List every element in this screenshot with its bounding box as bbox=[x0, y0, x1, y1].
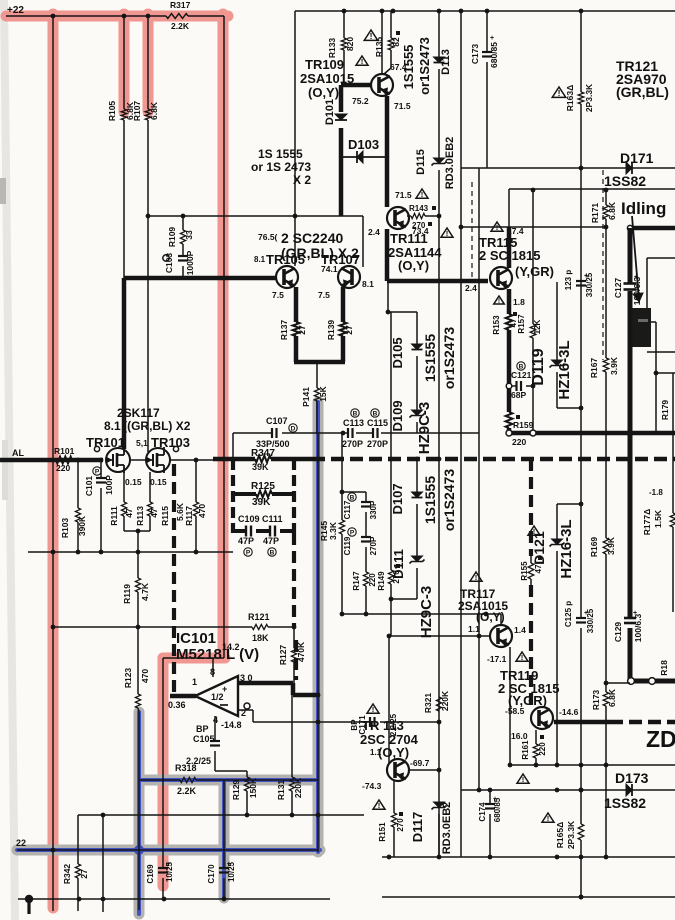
diode D113 bbox=[434, 57, 445, 63]
svg-text:R151: R151 bbox=[378, 822, 387, 842]
svg-text:!: ! bbox=[521, 653, 524, 662]
resistor R113 bbox=[147, 502, 152, 516]
Idling arrow to trimmer bbox=[632, 216, 639, 300]
capacitor C169 on x163 bbox=[158, 867, 168, 869]
node rail/bus897 bbox=[579, 895, 584, 900]
svg-text:82: 82 bbox=[391, 37, 401, 47]
capacitor C109 bbox=[245, 526, 247, 537]
black core of blue x139 bbox=[138, 708, 139, 712]
wire y771 link bbox=[215, 770, 247, 772]
svg-text:-14.8: -14.8 bbox=[221, 720, 242, 730]
scan edge gray strip bbox=[0, 0, 19, 920]
svg-text:R179: R179 bbox=[660, 400, 670, 421]
svg-text:IC101: IC101 bbox=[176, 630, 216, 647]
svg-text:33P/500: 33P/500 bbox=[256, 439, 290, 449]
node x462/TR115 bus bbox=[459, 225, 464, 230]
gray halo of blue C169 branch x139 bbox=[134, 712, 145, 914]
resistor R169 on x606 bbox=[603, 538, 609, 554]
svg-text:!: ! bbox=[446, 229, 449, 238]
black core of blue bus y850 bbox=[17, 849, 318, 851]
node bottom of left rail bbox=[51, 848, 56, 853]
transistor TR109 (2SA1015) bbox=[371, 74, 393, 96]
wire pin4 down x215 C105 bbox=[214, 716, 216, 741]
wire D111 elbow y599 bbox=[391, 598, 417, 600]
wire R123 x138 bbox=[137, 627, 139, 694]
svg-text:2P3.3K: 2P3.3K bbox=[566, 820, 576, 849]
resistor R342 bbox=[75, 864, 80, 878]
svg-text:R129: R129 bbox=[231, 780, 241, 801]
svg-text:7.5: 7.5 bbox=[272, 290, 284, 300]
svg-text:R125: R125 bbox=[251, 481, 275, 492]
node rail/D171 bbox=[579, 166, 584, 171]
node blue/bold bbox=[316, 693, 321, 698]
fold dash line x472 bbox=[471, 182, 473, 278]
svg-text:P: P bbox=[95, 468, 100, 475]
blue C170 branch x224 bbox=[222, 782, 226, 898]
svg-text:C103: C103 bbox=[164, 253, 174, 274]
wire join sources y531 bbox=[124, 530, 150, 532]
node D105 branch bbox=[386, 310, 391, 315]
svg-text:-14.6: -14.6 bbox=[559, 707, 579, 717]
svg-text:1.4: 1.4 bbox=[514, 625, 526, 635]
svg-text:(GR,BL): (GR,BL) bbox=[616, 84, 669, 100]
svg-text:390K: 390K bbox=[77, 515, 87, 536]
resistor R147 bbox=[363, 572, 368, 586]
bold TR115 collector up x509 bbox=[507, 227, 512, 268]
capacitor C107 bbox=[271, 428, 273, 438]
wire bus y899 left bbox=[18, 898, 330, 900]
svg-text:71.5: 71.5 bbox=[394, 101, 411, 111]
gray halo of blue output trace x318 bbox=[313, 402, 324, 852]
svg-text:470: 470 bbox=[140, 669, 150, 683]
svg-text:X 2: X 2 bbox=[293, 173, 311, 187]
node dash bus x391 bbox=[389, 457, 394, 462]
wire R318 black core y780 bbox=[139, 779, 180, 781]
svg-text:+: + bbox=[634, 274, 638, 281]
wire R135 branch x391 bbox=[390, 11, 392, 38]
wire pin8 up x213 bbox=[212, 658, 214, 677]
svg-text:27: 27 bbox=[79, 869, 89, 879]
transistor TR117 (2SA1015) bbox=[490, 625, 512, 647]
svg-text:+: + bbox=[227, 861, 231, 868]
capacitor C103 bbox=[178, 255, 188, 257]
warning triangle R165 bbox=[542, 813, 554, 822]
svg-text:-17.1: -17.1 bbox=[487, 654, 507, 664]
capacitor C101 bbox=[96, 477, 106, 479]
bold TR109 base feed y85 bbox=[341, 83, 372, 88]
wire C101 branch x101 bbox=[100, 460, 102, 478]
warning triangle TR113 bbox=[367, 704, 379, 713]
bold vertical x341 with D101 bbox=[339, 85, 344, 112]
svg-text:D119: D119 bbox=[530, 348, 547, 385]
svg-text:B: B bbox=[353, 410, 358, 417]
svg-text:220K: 220K bbox=[440, 690, 450, 711]
svg-text:R133: R133 bbox=[327, 38, 337, 59]
svg-text:12K: 12K bbox=[533, 319, 542, 334]
warning triangle R153 bbox=[494, 296, 505, 304]
svg-text:+: + bbox=[584, 610, 588, 617]
svg-text:HZ9C-3: HZ9C-3 bbox=[416, 402, 433, 455]
node rail/bus790 bbox=[579, 788, 584, 793]
svg-text:RD3.0EB2: RD3.0EB2 bbox=[441, 802, 453, 855]
capacitor C117 bbox=[361, 501, 371, 503]
node bus/R135 bbox=[391, 9, 396, 14]
svg-text:R342: R342 bbox=[62, 864, 72, 885]
svg-text:RD3.0EB2: RD3.0EB2 bbox=[444, 137, 456, 190]
svg-text:D173: D173 bbox=[615, 770, 649, 786]
svg-text:B: B bbox=[373, 410, 378, 417]
svg-text:1SS82: 1SS82 bbox=[604, 173, 646, 189]
bold U bottom y362 bbox=[294, 360, 345, 365]
svg-text:220: 220 bbox=[512, 437, 526, 447]
wire D121 elbow y504 bbox=[557, 503, 581, 505]
wire R113 x150 bbox=[149, 472, 151, 502]
wire R107 line upper x148 bbox=[147, 16, 149, 109]
resistor R127 bbox=[291, 648, 296, 662]
black core of blue x224 C170 bbox=[223, 780, 225, 868]
svg-text:D115: D115 bbox=[415, 149, 427, 175]
wire R107 line to TR103 gate bbox=[147, 120, 149, 452]
blue C169 branch x139 bbox=[137, 712, 141, 914]
wire R321 on x439 bbox=[438, 697, 440, 711]
resistor R133 bbox=[341, 38, 347, 50]
svg-text:330P: 330P bbox=[369, 500, 378, 519]
resistor R101 in input bbox=[56, 457, 72, 464]
resistor R157 on x533 bbox=[530, 324, 536, 338]
zener D115 on x439 bbox=[438, 170, 440, 216]
svg-text:R149: R149 bbox=[377, 571, 386, 591]
svg-text:C170: C170 bbox=[207, 864, 216, 884]
wire horizontal y627 R121 bbox=[53, 626, 252, 628]
svg-text:TR101: TR101 bbox=[86, 435, 125, 450]
svg-text:R161: R161 bbox=[521, 740, 530, 760]
svg-text:470: 470 bbox=[197, 504, 207, 518]
svg-text:R143: R143 bbox=[409, 204, 429, 213]
wire P141 branch x317 bbox=[316, 362, 318, 388]
diode D173 bbox=[626, 784, 632, 796]
wire x479 down to y790 bbox=[478, 636, 480, 790]
transistor TR115 (2SC1815) bbox=[490, 267, 512, 289]
svg-text:39K: 39K bbox=[252, 497, 271, 508]
bold dashed ladder left x233 bbox=[231, 459, 235, 533]
warning triangle TR109 bbox=[356, 56, 368, 65]
warning triangle above TR109 bbox=[364, 30, 378, 40]
zener D121 bbox=[552, 539, 563, 545]
svg-text:6.8K: 6.8K bbox=[607, 201, 617, 220]
svg-text:8.1: 8.1 bbox=[362, 279, 374, 289]
svg-text:!: ! bbox=[522, 775, 525, 784]
gray halo of blue C170 branch x224 bbox=[219, 782, 230, 898]
svg-text:1S1555: 1S1555 bbox=[422, 334, 438, 382]
svg-text:R321: R321 bbox=[423, 693, 433, 714]
svg-text:D113: D113 bbox=[440, 49, 452, 75]
svg-text:71.5: 71.5 bbox=[395, 190, 412, 200]
red highlight left rail vertical x53 bbox=[48, 14, 59, 908]
svg-text:2.2K: 2.2K bbox=[171, 21, 190, 31]
node R143/x439 bbox=[437, 214, 442, 219]
zener D119 bbox=[552, 360, 563, 366]
svg-text:2.2/25: 2.2/25 bbox=[389, 713, 398, 736]
wire +22 bus y16 bbox=[6, 15, 166, 17]
svg-text:D171: D171 bbox=[620, 150, 654, 166]
svg-text:R153: R153 bbox=[492, 315, 501, 335]
resistor R125 bbox=[256, 491, 272, 498]
svg-text:TR103: TR103 bbox=[151, 435, 190, 450]
svg-text:4.7K: 4.7K bbox=[140, 582, 150, 601]
svg-text:R107: R107 bbox=[132, 101, 142, 122]
bold output to connector y681 bbox=[630, 679, 675, 684]
svg-text:R105: R105 bbox=[107, 101, 117, 122]
bold stub bottom left x29 bbox=[27, 899, 30, 914]
svg-text:3.3K: 3.3K bbox=[328, 521, 338, 540]
svg-text:R165Δ: R165Δ bbox=[555, 822, 565, 848]
wire join to y552 bbox=[137, 531, 139, 552]
resistor R163 bbox=[578, 92, 584, 104]
bold corner down x124 to TR101 bbox=[122, 278, 127, 449]
wire R103 branch x78 bbox=[77, 460, 79, 508]
svg-text:R111: R111 bbox=[109, 506, 119, 526]
trimmer outer box right bbox=[647, 257, 675, 259]
bold TR115 emitter down x509 with R153 R159 bbox=[507, 289, 512, 314]
svg-text:R109: R109 bbox=[167, 227, 177, 248]
resistor R151 bbox=[391, 813, 396, 827]
node bus/R133 bbox=[342, 9, 347, 14]
wire R149 x391 bbox=[390, 459, 392, 570]
svg-text:!: ! bbox=[498, 298, 500, 305]
svg-text:1/2: 1/2 bbox=[211, 692, 224, 702]
blue junction blob at bus bbox=[134, 845, 144, 855]
transistor TR105 (2SC2240) bbox=[276, 266, 298, 288]
svg-text:270: 270 bbox=[396, 818, 405, 832]
svg-text:3.9K: 3.9K bbox=[609, 356, 619, 375]
svg-text:HZ9C-3: HZ9C-3 bbox=[418, 586, 435, 639]
resistor R139 in leg bbox=[340, 322, 347, 336]
svg-text:C105: C105 bbox=[193, 734, 215, 744]
wire R131 x292 bbox=[291, 695, 293, 777]
warning triangle TR117 bbox=[470, 572, 482, 581]
svg-text:2P3.3K: 2P3.3K bbox=[584, 83, 594, 112]
gray halo of blue bus y850 bbox=[17, 845, 320, 856]
red highlight R105 stub x124 bbox=[119, 14, 130, 112]
diode D101 bbox=[335, 114, 347, 120]
bold feed from edge y228 bbox=[630, 226, 675, 231]
wire C127 x606 down bbox=[605, 227, 607, 358]
svg-text:R167: R167 bbox=[589, 358, 599, 379]
svg-text:(O,Y): (O,Y) bbox=[398, 258, 429, 273]
wire R161 x536 bbox=[535, 730, 537, 744]
wire TR113 collector y770 bbox=[409, 769, 439, 771]
svg-text:AL: AL bbox=[12, 448, 24, 458]
svg-text:0.15: 0.15 bbox=[125, 477, 142, 487]
svg-text:270P: 270P bbox=[367, 439, 388, 449]
svg-text:-74.3: -74.3 bbox=[362, 781, 382, 791]
wire R105 line upper x124 bbox=[123, 16, 125, 109]
svg-text:or1S2473: or1S2473 bbox=[441, 469, 457, 531]
wire C173 branch x487 bbox=[486, 11, 488, 52]
wire rail x581 mid bbox=[580, 281, 582, 618]
capacitor C115 bbox=[372, 428, 374, 438]
TR109 emitter stub to bus bbox=[381, 11, 383, 74]
svg-text:C117: C117 bbox=[343, 500, 352, 519]
node rail/bus765 bbox=[579, 763, 584, 768]
svg-text:BP: BP bbox=[196, 724, 209, 734]
svg-text:8.1 ((GR,BL) X2: 8.1 ((GR,BL) X2 bbox=[104, 419, 191, 433]
resistor R107 bbox=[145, 109, 151, 120]
svg-text:2.2K: 2.2K bbox=[177, 786, 197, 796]
warning triangle TR119 upper bbox=[516, 652, 528, 661]
resistor R135 bbox=[388, 38, 394, 50]
wire R111 x125 bbox=[123, 472, 125, 502]
resistor R173 on x606 bbox=[603, 692, 609, 706]
svg-text:!: ! bbox=[547, 814, 550, 823]
svg-text:R113: R113 bbox=[135, 506, 145, 526]
svg-text:(O,Y): (O,Y) bbox=[308, 85, 339, 100]
wire between FETs bbox=[130, 459, 146, 461]
connector circles bbox=[628, 678, 635, 685]
bold output rail x630 bbox=[628, 228, 633, 283]
svg-text:18K: 18K bbox=[252, 633, 269, 643]
bold dashed feedback x174 bbox=[172, 464, 176, 696]
node x295/collector rail bbox=[293, 214, 298, 219]
svg-text:C173: C173 bbox=[470, 44, 480, 65]
resistor R171 bbox=[603, 205, 609, 219]
svg-text:R137: R137 bbox=[279, 320, 289, 341]
svg-text:47: 47 bbox=[149, 508, 159, 518]
capacitor C105 bbox=[210, 740, 220, 742]
svg-text:R171: R171 bbox=[590, 203, 600, 224]
svg-text:C101: C101 bbox=[84, 476, 94, 497]
svg-text:D: D bbox=[291, 425, 296, 432]
svg-text:P: P bbox=[350, 529, 355, 536]
wire R117 x196 bbox=[195, 460, 197, 502]
diode D103 bbox=[357, 151, 363, 163]
wire x533 vertical bbox=[532, 190, 534, 324]
svg-text:C121: C121 bbox=[511, 370, 532, 380]
svg-text:R173: R173 bbox=[591, 690, 601, 711]
resistor R131 bbox=[289, 777, 294, 791]
gray halo of blue R318 jog y780 bbox=[139, 775, 318, 786]
black core of blue output trace x318 bbox=[317, 434, 319, 852]
bold emitter bus y433 bbox=[509, 431, 675, 436]
warning triangle R151 bbox=[373, 800, 385, 809]
wire x439 lower half bbox=[438, 216, 440, 697]
svg-text:B: B bbox=[270, 549, 275, 556]
zener D109 bbox=[412, 410, 423, 416]
node R109 branch bbox=[181, 214, 186, 219]
bold opamp output left bbox=[170, 694, 196, 699]
wire TR115 bias bus y227 bbox=[461, 226, 606, 228]
bold input to TR105 base y278 bbox=[124, 276, 277, 281]
svg-text:C129: C129 bbox=[613, 622, 623, 643]
wire C107/C113 line y433 bbox=[233, 432, 272, 434]
resistor R145 bbox=[339, 520, 344, 534]
warning triangle below TR119 bbox=[517, 774, 529, 783]
resistor R123 bbox=[135, 694, 140, 708]
resistor R103 bbox=[75, 508, 80, 522]
wire C174 x490 bbox=[489, 790, 491, 804]
svg-text:(O,Y): (O,Y) bbox=[378, 745, 409, 760]
svg-text:270P: 270P bbox=[342, 439, 363, 449]
capacitor C113 bbox=[347, 428, 349, 438]
svg-text:P141: P141 bbox=[301, 387, 311, 407]
svg-text:+: + bbox=[166, 861, 170, 868]
resistor R159 in bold bbox=[506, 412, 513, 428]
svg-text:R155: R155 bbox=[520, 561, 529, 581]
capacitor C170 bbox=[219, 867, 229, 869]
svg-text:+: + bbox=[633, 610, 637, 617]
resistor R105 bbox=[121, 109, 127, 120]
svg-text:1S1555: 1S1555 bbox=[422, 476, 438, 524]
trimmer wiper line x656 bbox=[651, 321, 656, 323]
red highlight +22 rail horizontal bbox=[6, 11, 228, 22]
resistor R117 bbox=[193, 502, 198, 516]
svg-text:+: + bbox=[490, 35, 494, 42]
svg-text:R119: R119 bbox=[122, 584, 132, 604]
svg-text:or 1S 2473: or 1S 2473 bbox=[251, 160, 311, 174]
svg-text:R117: R117 bbox=[184, 506, 194, 526]
warning triangle R155 bbox=[528, 526, 540, 535]
wire ladder top link x233 bbox=[232, 433, 234, 459]
svg-text:100/6.3: 100/6.3 bbox=[633, 614, 643, 643]
svg-text:R347: R347 bbox=[251, 448, 275, 459]
Idling box top y189 bbox=[509, 188, 675, 190]
wire y815 line bbox=[78, 814, 364, 816]
wire bias line y614 bbox=[342, 613, 486, 615]
svg-text:-1.8: -1.8 bbox=[649, 488, 663, 497]
svg-text:R139: R139 bbox=[326, 320, 336, 341]
wire P141 lower into blue bbox=[316, 401, 318, 434]
svg-text:1.5K: 1.5K bbox=[653, 509, 663, 528]
resistor R317 bbox=[166, 14, 188, 19]
svg-text:220: 220 bbox=[538, 742, 547, 756]
svg-text:100P: 100P bbox=[104, 475, 114, 495]
zener D117 on x439 bbox=[434, 802, 445, 808]
resistor R149 bbox=[388, 570, 393, 584]
svg-text:C107: C107 bbox=[266, 416, 288, 426]
svg-text:TR109: TR109 bbox=[305, 57, 344, 72]
capacitor C123 on rail bbox=[576, 280, 586, 282]
bold dashed output y722 bbox=[554, 720, 610, 725]
wire D107/D111 x417 bbox=[416, 459, 418, 492]
node bus/C173 bbox=[485, 9, 490, 14]
resistor P141 bbox=[314, 388, 319, 401]
wire R145 x342 bbox=[341, 433, 343, 520]
wire top bus y11 bbox=[295, 10, 675, 12]
svg-text:ZD: ZD bbox=[646, 726, 675, 752]
svg-text:14.2: 14.2 bbox=[222, 642, 240, 652]
capacitor C111 bbox=[269, 526, 271, 537]
svg-text:820: 820 bbox=[345, 37, 355, 51]
blue R318 jog y780 bbox=[139, 778, 318, 782]
wire R133 branch x344 bbox=[343, 11, 345, 38]
svg-text:123 p: 123 p bbox=[564, 270, 573, 291]
wire +22 branch black core x224 bbox=[223, 16, 225, 658]
node dash bus x439 bbox=[437, 457, 442, 462]
svg-text:C113: C113 bbox=[343, 418, 364, 428]
blue output trace x318 from P141 to bus bbox=[316, 402, 320, 852]
svg-text:(O,Y): (O,Y) bbox=[476, 610, 505, 624]
label o TR103 bbox=[173, 446, 178, 451]
svg-text:1SS82: 1SS82 bbox=[604, 795, 646, 811]
wire branch y312 bbox=[388, 311, 417, 313]
resistor R318 bbox=[180, 777, 196, 782]
node bus/R163 bbox=[579, 9, 584, 14]
resistor R321 bbox=[436, 697, 441, 711]
svg-text:HZ16-3L: HZ16-3L bbox=[556, 340, 573, 399]
red highlight +22 branch vertical x223 bbox=[218, 14, 229, 658]
black core of red x163 down bbox=[162, 658, 164, 868]
resistor R143 from TR111 collector bbox=[407, 215, 411, 217]
